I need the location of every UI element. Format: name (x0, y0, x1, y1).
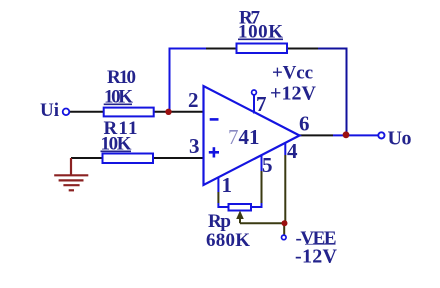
wire output to Uo (333, 134, 379, 136)
svg-text:+12V: +12V (270, 83, 317, 105)
svg-text:Ui: Ui (40, 100, 59, 121)
ground (54, 158, 88, 190)
svg-text:+Vcc: +Vcc (272, 63, 313, 84)
svg-text:680K: 680K (206, 230, 250, 251)
svg-text:Rp: Rp (208, 211, 231, 232)
wire R10 to pin 2 (154, 111, 204, 113)
svg-text:Uo: Uo (388, 128, 412, 150)
wire R7 left stub (204, 48, 237, 50)
potentiometer Rp (229, 204, 252, 211)
op-amp U1 741 (204, 86, 300, 185)
pin 7 stub (253, 95, 255, 114)
svg-text:2: 2 (188, 88, 199, 112)
svg-text:7: 7 (256, 92, 267, 116)
wire ground to R11 (71, 157, 104, 159)
wire Ui to R10 (69, 111, 104, 113)
plus sign (non-inverting input) (209, 151, 219, 154)
wire pin 6 output black (299, 134, 333, 136)
svg-text:5: 5 (262, 153, 273, 177)
wire pin 4 (284, 143, 286, 155)
input terminal Ui (63, 109, 70, 116)
terminal -VEE (282, 235, 287, 240)
svg-text:4: 4 (287, 139, 298, 163)
minus sign (inverting input) (210, 118, 219, 121)
wire feedback right vertical (318, 49, 347, 134)
svg-text:R10: R10 (107, 67, 136, 88)
resistor R7 (237, 44, 288, 54)
svg-text:3: 3 (189, 134, 200, 158)
wire R7 right stub (287, 48, 319, 50)
resistor R10 (104, 108, 154, 117)
wire pin 1 (217, 178, 219, 193)
output terminal Uo (378, 132, 384, 138)
wire pin 5 (261, 156, 263, 172)
svg-text:1: 1 (222, 173, 233, 197)
svg-text:-12V: -12V (295, 246, 338, 268)
wiper arrow (236, 211, 244, 220)
pin 7 terminal (252, 90, 257, 95)
wire R11 to pin 3 (153, 157, 204, 159)
svg-text:741: 741 (228, 125, 260, 149)
wire feedback left vertical (170, 49, 207, 112)
wire wiper to VEE net (240, 222, 285, 224)
junction VEE node (282, 220, 288, 226)
resistor R11 (103, 154, 154, 164)
junction output node (343, 131, 350, 138)
junction node inverting input (165, 109, 171, 115)
svg-text:6: 6 (299, 112, 310, 136)
